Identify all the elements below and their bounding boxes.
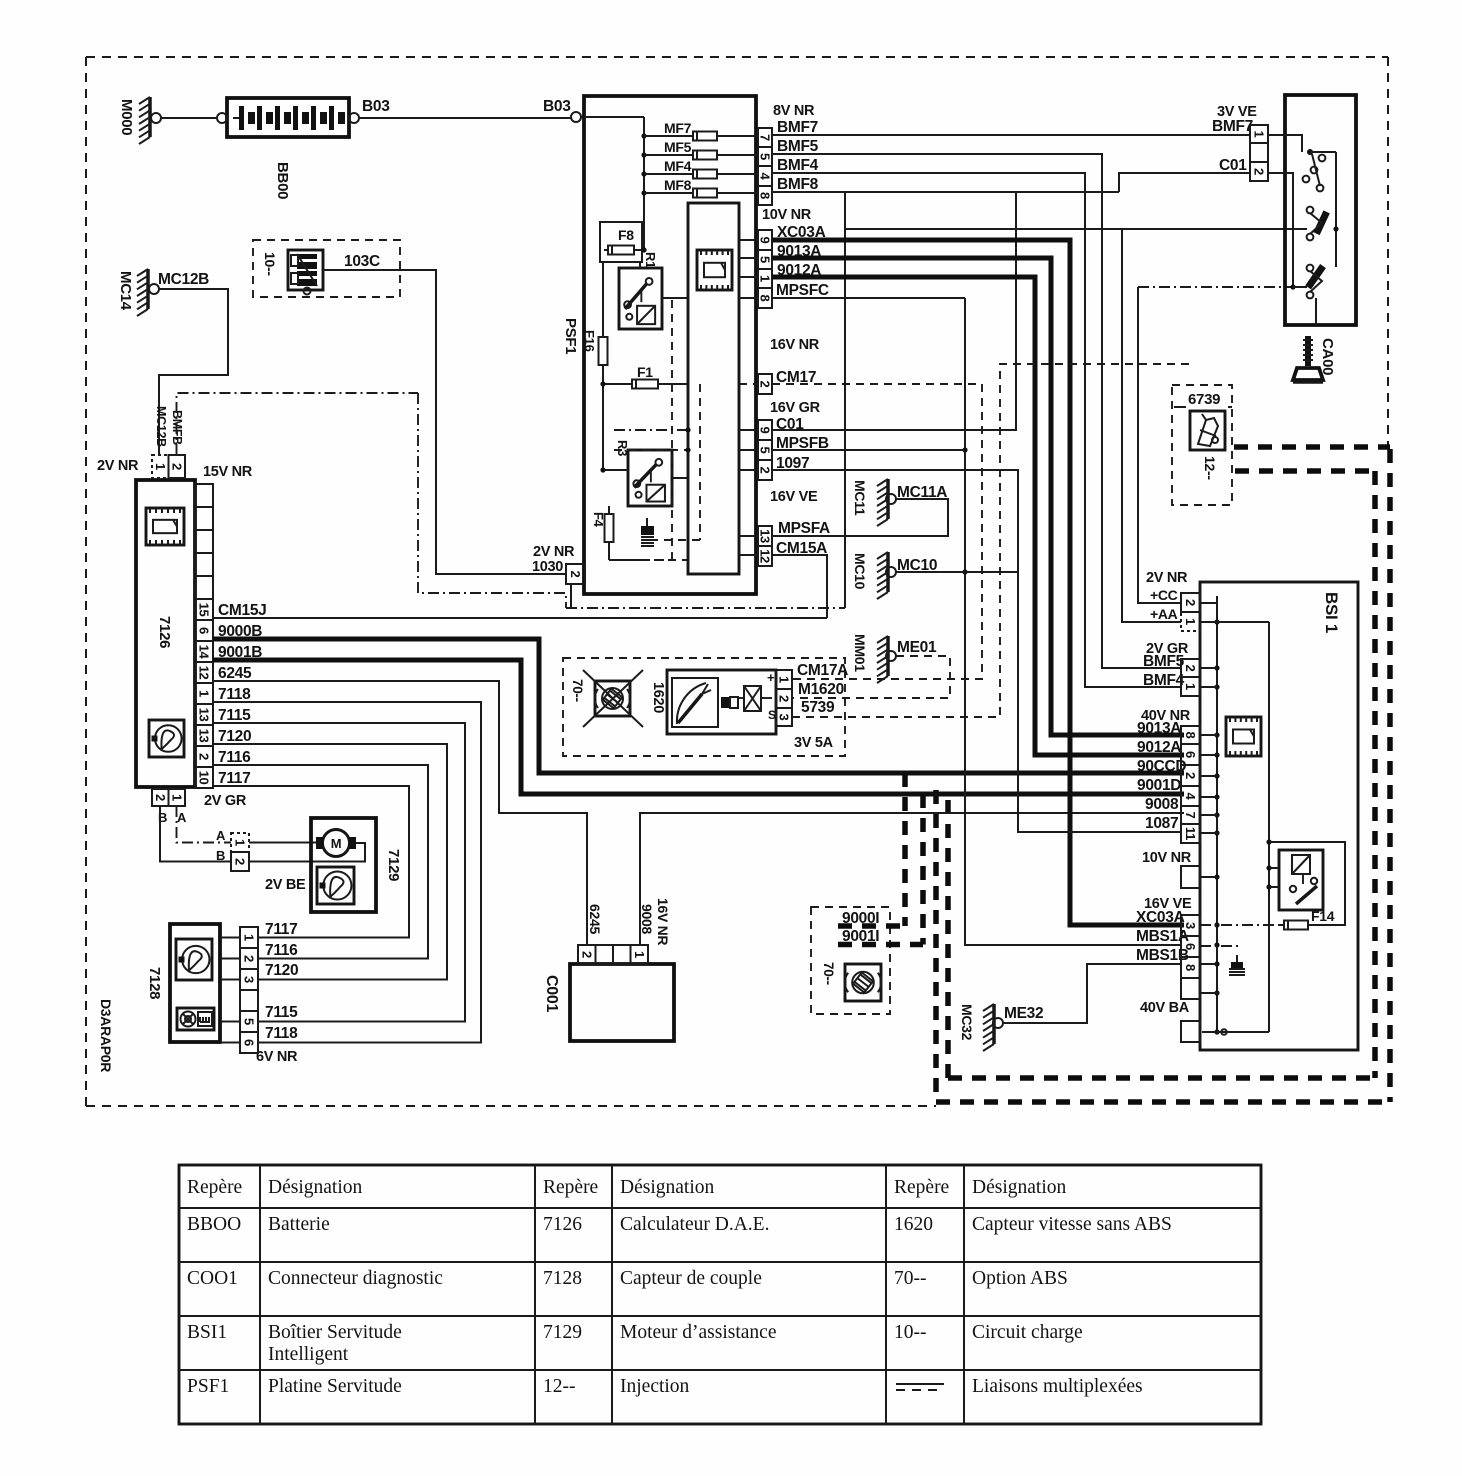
- svg-text:5: 5: [758, 447, 773, 454]
- svg-text:BMF5: BMF5: [777, 138, 819, 155]
- svg-text:9008: 9008: [639, 904, 655, 934]
- 7126 microcontroller IC: [146, 508, 184, 545]
- svg-text:Boîtier Servitude: Boîtier Servitude: [268, 1322, 402, 1343]
- wire BMF5 PSF1 to BSI1: [772, 154, 1181, 668]
- svg-text:7117: 7117: [265, 921, 297, 938]
- wire BMF8 net horizontal (dash-dot): [566, 607, 845, 609]
- svg-text:10V NR: 10V NR: [1142, 850, 1192, 866]
- 7126 top connector pins 1 2: [152, 455, 169, 478]
- svg-text:F1: F1: [637, 364, 653, 380]
- svg-text:M000: M000: [118, 99, 135, 135]
- PSF1 pins 9 5 2 (16V GR group): [758, 420, 772, 440]
- svg-text:Circuit charge: Circuit charge: [972, 1322, 1083, 1343]
- connector 103C (circuit charge 10--): [253, 240, 400, 297]
- svg-text:16V NR: 16V NR: [655, 898, 671, 945]
- wire 9000I (thick dashed): [838, 923, 905, 929]
- BSI1 MBS1A inner dash: [1200, 945, 1240, 947]
- svg-text:7116: 7116: [218, 749, 251, 766]
- svg-text:S: S: [768, 708, 776, 722]
- wire 1097 to BSI1 1087: [772, 470, 1182, 832]
- svg-text:2V NR: 2V NR: [533, 544, 575, 560]
- wire BMF8 / C01 run: [772, 191, 1119, 193]
- CA00 pins 1 2: [1250, 125, 1268, 143]
- svg-text:Capteur de couple: Capteur de couple: [620, 1268, 762, 1289]
- svg-text:Option ABS: Option ABS: [972, 1268, 1068, 1289]
- svg-text:3: 3: [777, 714, 792, 721]
- PSF1 pins 9 5 1 8 (10V NR group): [758, 230, 772, 250]
- svg-text:1: 1: [758, 275, 773, 282]
- svg-text:9013A: 9013A: [1137, 720, 1181, 737]
- svg-text:XC03A: XC03A: [1136, 909, 1185, 926]
- svg-text:Injection: Injection: [620, 1376, 690, 1397]
- svg-text:B: B: [216, 848, 225, 863]
- wire MPSFB: [772, 449, 965, 451]
- svg-text:BMF4: BMF4: [777, 157, 819, 174]
- svg-text:6V NR: 6V NR: [256, 1049, 298, 1065]
- PSF1 inner module box: [688, 203, 739, 574]
- svg-text:12--: 12--: [543, 1376, 576, 1397]
- svg-text:Repère: Repère: [187, 1177, 242, 1198]
- svg-text:MM01: MM01: [852, 634, 868, 672]
- assistance motor 7129: [311, 818, 376, 912]
- wire +AA from CA00 middle contact to BSI1: [845, 229, 1181, 622]
- 7126 sensor symbol: [149, 720, 184, 757]
- svg-text:R1: R1: [643, 252, 658, 268]
- svg-text:6739: 6739: [1188, 391, 1220, 408]
- svg-text:1: 1: [632, 951, 647, 958]
- svg-text:9001D: 9001D: [1137, 777, 1181, 794]
- svg-text:2: 2: [777, 695, 792, 702]
- svg-text:12: 12: [758, 549, 773, 563]
- legend multiplex symbol: [896, 1383, 944, 1385]
- svg-text:Batterie: Batterie: [268, 1214, 330, 1235]
- svg-text:Platine Servitude: Platine Servitude: [268, 1376, 402, 1397]
- CA00 internal contacts: [1268, 134, 1285, 136]
- svg-text:Désignation: Désignation: [268, 1177, 362, 1198]
- wire BMF4 PSF1 to BSI1: [772, 173, 1181, 687]
- torque sensor 7128 Capteur de couple: [170, 924, 220, 1042]
- svg-text:2: 2: [568, 571, 583, 578]
- svg-text:90CCD: 90CCD: [1137, 758, 1186, 775]
- svg-text:CA00: CA00: [1319, 338, 1336, 375]
- wire MC12B from MC14 to 7126 pin 1: [159, 289, 228, 455]
- svg-text:B03: B03: [543, 98, 571, 115]
- svg-text:2V BE: 2V BE: [265, 877, 306, 893]
- svg-text:10--: 10--: [262, 252, 278, 276]
- svg-text:Repère: Repère: [543, 1177, 598, 1198]
- svg-text:ME01: ME01: [897, 639, 937, 656]
- fuse F8: [600, 222, 642, 262]
- svg-text:16V VE: 16V VE: [770, 489, 818, 505]
- svg-text:BBOO: BBOO: [187, 1214, 241, 1235]
- svg-text:5: 5: [242, 1018, 257, 1025]
- ground M000: [148, 97, 152, 137]
- wire MPSFA to MC11A: [772, 499, 948, 536]
- C001 pin strip: [578, 945, 596, 964]
- svg-text:70--: 70--: [894, 1268, 927, 1289]
- svg-text:8V NR: 8V NR: [773, 103, 815, 119]
- svg-text:COO1: COO1: [187, 1268, 238, 1289]
- svg-text:MC12B: MC12B: [154, 406, 168, 447]
- svg-text:PSF1: PSF1: [562, 318, 579, 354]
- 7129 motor M symbol: [323, 830, 350, 857]
- svg-text:1: 1: [169, 794, 184, 801]
- svg-text:6: 6: [1183, 943, 1198, 950]
- svg-text:BB00: BB00: [274, 162, 291, 199]
- ABS option connector 70-- (9000I/9001I): [811, 907, 890, 1014]
- ignition switch CA00: [1285, 95, 1356, 325]
- multiplex link thick dashed inner rectangle (BSI1 boundary): [1235, 468, 1375, 474]
- 7129 sensor symbol: [317, 867, 354, 904]
- svg-text:8: 8: [758, 192, 773, 199]
- svg-text:16V GR: 16V GR: [770, 400, 821, 416]
- 6739 injector icon: [1198, 418, 1218, 446]
- svg-text:Liaisons multiplexées: Liaisons multiplexées: [972, 1376, 1143, 1397]
- svg-text:10V NR: 10V NR: [762, 207, 812, 223]
- ignition key symbol: [1305, 336, 1311, 366]
- svg-text:MPSFA: MPSFA: [778, 520, 830, 537]
- svg-text:MC14: MC14: [117, 271, 134, 311]
- svg-text:7126: 7126: [156, 616, 173, 648]
- PSF1 pins 13 12 (16V VE group): [758, 526, 772, 546]
- svg-text:BSI 1: BSI 1: [1322, 592, 1341, 633]
- crossed-out ABS sensor (70-- option): [595, 681, 630, 716]
- wire +CC from CA00 lower contact to BSI1 (dash-dot): [1138, 287, 1181, 603]
- svg-text:PSF1: PSF1: [187, 1376, 229, 1397]
- svg-text:7120: 7120: [265, 962, 298, 979]
- svg-text:1620: 1620: [894, 1214, 933, 1235]
- ground MC11 / node MC11A: [886, 479, 890, 519]
- svg-text:2: 2: [1183, 599, 1198, 606]
- svg-text:2: 2: [579, 951, 594, 958]
- svg-text:7128: 7128: [543, 1268, 582, 1289]
- BSI1 inner link vertical: [1268, 622, 1270, 1032]
- svg-text:BSI1: BSI1: [187, 1322, 227, 1343]
- wire A from 7126 to motor connector: [177, 806, 232, 843]
- diagram border frame (dashed): [86, 56, 1388, 58]
- svg-text:9012A: 9012A: [1137, 739, 1181, 756]
- svg-text:6: 6: [1183, 751, 1198, 758]
- wire BMF8 branch down: [844, 192, 846, 608]
- wire 9013A (thick): [772, 258, 1184, 735]
- 70-- ABS sensor icon: [845, 964, 881, 1001]
- svg-text:2: 2: [169, 463, 184, 470]
- wire MPSF net vertical to MBS1A: [965, 298, 1181, 945]
- 7128 lower symbol (resolver + scale): [177, 1008, 214, 1030]
- svg-text:+CC: +CC: [1150, 587, 1178, 603]
- svg-text:C01: C01: [1219, 157, 1247, 174]
- svg-text:Intelligent: Intelligent: [268, 1344, 349, 1365]
- svg-text:7129: 7129: [385, 849, 402, 881]
- svg-text:7117: 7117: [218, 770, 250, 787]
- svg-text:2: 2: [1183, 772, 1198, 779]
- svg-text:5: 5: [758, 153, 773, 160]
- svg-text:CM15J: CM15J: [218, 602, 266, 619]
- svg-text:7126: 7126: [543, 1214, 582, 1235]
- svg-text:1: 1: [197, 690, 212, 697]
- wire MC10 to 1097 net: [896, 571, 1018, 573]
- multiplex link thick dashed border right/bottom: [1387, 449, 1393, 1102]
- wire BMF7 PSF1 to CA00: [772, 134, 1250, 136]
- svg-text:BMF7: BMF7: [777, 119, 818, 136]
- svg-text:1: 1: [777, 676, 792, 683]
- ground MC14: [146, 269, 150, 309]
- PSF1 internal ground: [641, 526, 654, 535]
- svg-text:3: 3: [242, 976, 257, 983]
- svg-text:3: 3: [1183, 922, 1198, 929]
- svg-text:M1620: M1620: [798, 681, 844, 698]
- svg-text:Moteur d’assistance: Moteur d’assistance: [620, 1322, 777, 1343]
- svg-text:2: 2: [1183, 665, 1198, 672]
- wire B03 battery to PSF1: [359, 117, 571, 119]
- svg-text:1: 1: [1252, 131, 1267, 138]
- svg-text:7129: 7129: [543, 1322, 582, 1343]
- svg-text:CM17: CM17: [776, 369, 816, 386]
- PSF1 inner dashed links: [671, 300, 673, 560]
- svg-text:1: 1: [1183, 683, 1198, 690]
- svg-text:MF8: MF8: [664, 177, 692, 193]
- svg-text:+AA: +AA: [1150, 606, 1178, 622]
- wire 9008 from C001 pin 1 to BSI1: [640, 813, 1184, 945]
- svg-text:CM17A: CM17A: [797, 662, 848, 679]
- svg-text:2: 2: [153, 794, 168, 801]
- svg-text:2V GR: 2V GR: [204, 793, 247, 809]
- svg-text:1620: 1620: [650, 682, 666, 713]
- svg-text:70--: 70--: [570, 679, 585, 702]
- svg-text:2: 2: [1252, 168, 1267, 175]
- motor connector pins 1 2: [231, 833, 249, 852]
- svg-text:7128: 7128: [146, 967, 163, 999]
- svg-text:11: 11: [1183, 827, 1198, 840]
- battery BB00: [227, 98, 349, 137]
- svg-text:C001: C001: [543, 975, 560, 1012]
- svg-text:9: 9: [758, 427, 773, 434]
- svg-text:7115: 7115: [218, 707, 251, 724]
- svg-text:2: 2: [233, 858, 248, 865]
- svg-text:1: 1: [242, 934, 257, 941]
- wire 5739 (dashed) toward 6739: [792, 364, 1190, 717]
- svg-text:7: 7: [758, 134, 773, 141]
- wire C01 PSF1 to CA00: [772, 192, 1016, 430]
- svg-text:A: A: [177, 810, 187, 825]
- svg-text:7: 7: [1183, 812, 1198, 819]
- svg-text:14: 14: [197, 645, 212, 660]
- svg-text:9: 9: [758, 237, 773, 244]
- ground MC10: [886, 552, 890, 592]
- PSF1 pin 2 (CM17): [758, 374, 772, 394]
- svg-text:1: 1: [233, 839, 248, 846]
- svg-text:Connecteur diagnostic: Connecteur diagnostic: [268, 1268, 443, 1289]
- svg-text:BMF4: BMF4: [1143, 672, 1185, 689]
- svg-text:6: 6: [197, 627, 212, 634]
- svg-text:MC32: MC32: [959, 1004, 975, 1041]
- svg-text:MC12B: MC12B: [158, 271, 209, 288]
- BSI1 Boitier Servitude Intelligent: [1200, 582, 1358, 1050]
- svg-text:MF5: MF5: [664, 139, 692, 155]
- svg-text:BMF7: BMF7: [1212, 118, 1253, 135]
- svg-text:F14: F14: [1311, 908, 1335, 924]
- svg-text:13: 13: [758, 529, 773, 543]
- 1620 transducer symbol: [744, 686, 761, 711]
- BSI1 CPU symbol: [1226, 717, 1261, 756]
- svg-text:CM15A: CM15A: [776, 540, 827, 557]
- svg-text:13: 13: [197, 708, 212, 722]
- svg-text:12--: 12--: [1202, 456, 1218, 480]
- svg-text:D3ARAP0R: D3ARAP0R: [98, 999, 114, 1072]
- svg-text:2: 2: [197, 753, 212, 760]
- svg-text:9008: 9008: [1145, 796, 1179, 813]
- svg-text:6: 6: [242, 1039, 257, 1046]
- svg-text:16V NR: 16V NR: [770, 337, 820, 353]
- 1620 sensor unit: [667, 670, 776, 734]
- svg-text:2: 2: [758, 467, 773, 474]
- svg-text:13: 13: [197, 729, 212, 743]
- fuse F14: [1284, 921, 1308, 930]
- svg-text:4: 4: [758, 173, 773, 181]
- svg-text:BMF8: BMF8: [777, 176, 819, 193]
- svg-text:6245: 6245: [218, 665, 252, 682]
- wire BMFB from 7126 pin 2 (dash-dot): [177, 393, 419, 455]
- wire MPSFC: [772, 297, 965, 299]
- svg-text:Capteur vitesse sans ABS: Capteur vitesse sans ABS: [972, 1214, 1172, 1235]
- svg-text:+: +: [767, 670, 775, 685]
- svg-text:15: 15: [197, 603, 212, 617]
- ECU 7126 Calculateur D.A.E.: [136, 480, 195, 787]
- PSF1 inner connector symbol: [697, 250, 732, 290]
- PSF1 pins 7 5 4 8: [758, 128, 772, 147]
- svg-text:ME32: ME32: [1004, 1005, 1043, 1022]
- svg-text:40V BA: 40V BA: [1140, 1000, 1190, 1016]
- wire 9012A (thick): [772, 277, 1184, 755]
- svg-text:8: 8: [1183, 732, 1198, 739]
- BSI1 relay and fuse F14: [1269, 842, 1345, 925]
- BSI1 internal ground: [1231, 962, 1243, 969]
- injection connector 6739 (12--): [1172, 385, 1232, 505]
- svg-text:B03: B03: [362, 98, 390, 115]
- svg-text:Désignation: Désignation: [620, 1177, 714, 1198]
- 7128 connector pin strip: [240, 927, 258, 948]
- svg-text:1: 1: [1183, 618, 1198, 625]
- svg-text:F16: F16: [582, 330, 597, 352]
- svg-text:2V NR: 2V NR: [97, 458, 139, 474]
- platine servitude PSF1: [584, 96, 756, 594]
- wire 9001I (thick dashed): [838, 942, 923, 948]
- svg-text:7115: 7115: [265, 1004, 298, 1021]
- speed sensor box 1620 (Capteur vitesse sans ABS): [563, 658, 845, 756]
- svg-text:Repère: Repère: [894, 1177, 949, 1198]
- svg-text:Désignation: Désignation: [972, 1177, 1066, 1198]
- wire ME32 to BSI1 MBS1B: [1003, 964, 1181, 1023]
- ground MM01 / wire ME01: [886, 636, 890, 676]
- svg-text:5739: 5739: [801, 699, 835, 716]
- svg-text:8: 8: [1183, 964, 1198, 971]
- wire M000 to battery: [161, 117, 217, 119]
- svg-text:8: 8: [758, 295, 773, 302]
- svg-text:MC11A: MC11A: [897, 484, 947, 501]
- 1620 pins 1 2 3: [776, 670, 792, 689]
- svg-text:MF4: MF4: [664, 158, 692, 174]
- svg-text:M: M: [331, 836, 342, 851]
- svg-text:Calculateur D.A.E.: Calculateur D.A.E.: [620, 1214, 769, 1235]
- svg-text:10--: 10--: [894, 1322, 927, 1343]
- svg-text:MPSFC: MPSFC: [776, 282, 829, 299]
- svg-text:2V NR: 2V NR: [1146, 570, 1188, 586]
- wire 103C to connector 1030 pin 2: [323, 270, 566, 574]
- svg-text:MC11: MC11: [852, 480, 868, 516]
- wire XC03A (thick): [772, 240, 1184, 925]
- svg-text:12: 12: [197, 666, 212, 680]
- svg-text:4: 4: [1183, 793, 1198, 801]
- PSF1 internal supply bus from B03: [584, 116, 644, 118]
- diagnostic connector C001: [570, 964, 674, 1041]
- svg-text:7116: 7116: [265, 942, 298, 959]
- svg-text:MF7: MF7: [664, 120, 692, 136]
- svg-text:1030: 1030: [532, 559, 563, 575]
- legend table: [179, 1165, 1261, 1424]
- svg-text:103C: 103C: [344, 253, 380, 270]
- svg-text:A: A: [216, 828, 226, 843]
- svg-text:3V 5A: 3V 5A: [794, 735, 834, 751]
- BSI1 internal bus: [1216, 596, 1218, 1032]
- svg-text:BMF5: BMF5: [1143, 653, 1185, 670]
- svg-text:F8: F8: [618, 227, 634, 243]
- svg-text:6245: 6245: [587, 904, 603, 934]
- wire CM17 (dashed) to 1620 CM17A: [772, 384, 982, 679]
- wire connector to motor 7129: [249, 842, 317, 844]
- svg-text:2: 2: [758, 381, 773, 388]
- svg-text:15V NR: 15V NR: [203, 464, 253, 480]
- svg-text:7118: 7118: [218, 686, 251, 703]
- svg-text:MC10: MC10: [852, 553, 868, 590]
- wire B from 7126 to motor connector: [160, 806, 231, 862]
- svg-text:2: 2: [242, 955, 257, 962]
- svg-text:1: 1: [153, 463, 168, 470]
- svg-text:7118: 7118: [265, 1025, 298, 1042]
- svg-text:10: 10: [197, 771, 212, 785]
- ground MC32 / wire ME32: [992, 1004, 996, 1044]
- svg-text:1087: 1087: [1145, 815, 1178, 832]
- 7128 sensor symbol: [176, 939, 212, 980]
- 7126 bottom connector pins 2 1: [152, 789, 169, 806]
- svg-text:70--: 70--: [821, 962, 836, 985]
- svg-text:5: 5: [758, 256, 773, 263]
- 7126 right connector pin strip: [195, 484, 213, 507]
- svg-text:7120: 7120: [218, 728, 251, 745]
